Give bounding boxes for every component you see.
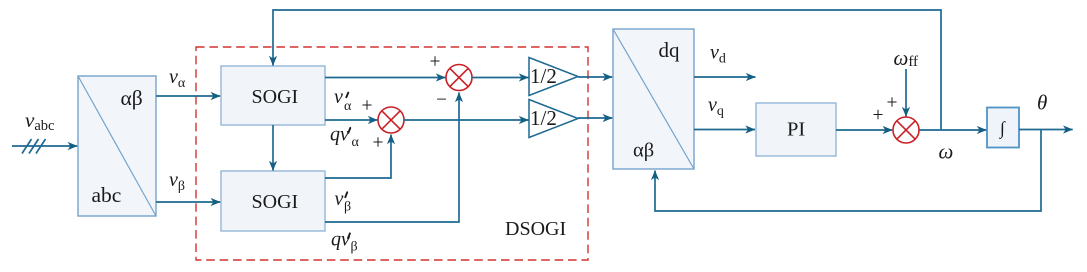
svg-text:vd: vd bbox=[710, 41, 726, 66]
svg-text:−: − bbox=[436, 90, 447, 111]
svg-text:α: α bbox=[352, 135, 360, 150]
svg-text:+: + bbox=[362, 96, 373, 117]
block SOGI 1 bbox=[221, 66, 325, 125]
multiplier lower (qv'_alpha + v'_beta) bbox=[378, 107, 404, 133]
wire: gain upper to dq block bbox=[578, 76, 612, 78]
gain block 1/2 upper bbox=[529, 58, 578, 96]
wire: gain lower to dq block bbox=[578, 117, 612, 119]
svg-text:vabc: vabc bbox=[25, 108, 54, 134]
wire: omega_ff into summing junction bbox=[905, 69, 907, 117]
wire: upper multiplier to gain 1/2 bbox=[472, 77, 529, 79]
svg-text:ω: ω bbox=[939, 140, 954, 164]
svg-text:qv: qv bbox=[331, 229, 350, 251]
svg-text:β: β bbox=[351, 240, 358, 255]
svg-text:SOGI: SOGI bbox=[252, 191, 299, 213]
label qv'_beta bbox=[331, 229, 358, 255]
svg-text:α: α bbox=[344, 99, 352, 114]
wire: v_d output bbox=[694, 76, 756, 78]
block PI bbox=[756, 103, 836, 156]
wire: v'_alpha to upper multiplier bbox=[325, 77, 446, 79]
wire: omega feedback to SOGI1 (top) bbox=[273, 10, 941, 130]
wire: v'_beta to lower multiplier bbox=[325, 135, 391, 179]
DSOGI dashed enclosure bbox=[196, 47, 588, 260]
svg-text:θ: θ bbox=[1037, 91, 1047, 115]
wire: theta output bbox=[1019, 129, 1073, 131]
gain block 1/2 lower bbox=[529, 100, 578, 138]
svg-text:1/2: 1/2 bbox=[530, 106, 557, 130]
wire: v_abc input bbox=[12, 145, 77, 147]
integrator block bbox=[987, 108, 1019, 148]
svg-text:+: + bbox=[373, 133, 384, 154]
wire: v_alpha bbox=[156, 95, 220, 97]
svg-text:SOGI: SOGI bbox=[252, 86, 299, 108]
svg-text:dq: dq bbox=[659, 38, 681, 62]
svg-text:+: + bbox=[430, 52, 441, 73]
wire: qv'_beta to upper multiplier bbox=[325, 93, 459, 223]
wire: lower multiplier to gain 1/2 bbox=[404, 119, 529, 121]
svg-text:+: + bbox=[887, 93, 898, 114]
transform block abc to alpha-beta bbox=[78, 76, 156, 216]
svg-text:vβ: vβ bbox=[169, 169, 185, 194]
svg-text:v: v bbox=[334, 86, 343, 108]
svg-text:PI: PI bbox=[787, 118, 805, 140]
svg-text:β: β bbox=[344, 200, 351, 215]
svg-text:1/2: 1/2 bbox=[530, 64, 557, 88]
wire: summing junction to integrator bbox=[919, 129, 987, 131]
svg-text:+: + bbox=[873, 105, 884, 126]
svg-text:abc: abc bbox=[92, 183, 122, 207]
svg-text:ωff: ωff bbox=[894, 46, 919, 70]
block SOGI 2 bbox=[221, 171, 325, 231]
label v'_beta bbox=[335, 188, 352, 215]
wire: PI to summing junction bbox=[836, 129, 892, 131]
summing junction bbox=[893, 117, 919, 143]
multiplier upper (v'_alpha - qv'_beta) bbox=[446, 65, 472, 91]
svg-text:v: v bbox=[335, 188, 344, 210]
svg-text:αβ: αβ bbox=[121, 86, 143, 110]
svg-text:αβ: αβ bbox=[633, 139, 654, 161]
transform block alpha-beta to dq bbox=[613, 29, 694, 169]
wire: theta feedback to dq block bbox=[655, 130, 1041, 212]
wire: SOGI1 to SOGI2 bbox=[272, 125, 274, 171]
label qv'_alpha bbox=[330, 124, 360, 151]
label v'_alpha bbox=[334, 86, 352, 114]
three-phase slash marks bbox=[22, 139, 46, 154]
svg-text:vα: vα bbox=[169, 66, 186, 91]
svg-text:DSOGI: DSOGI bbox=[505, 218, 566, 240]
wire: v_q to PI bbox=[694, 129, 755, 131]
svg-text:vq: vq bbox=[708, 94, 724, 119]
svg-text:qv: qv bbox=[330, 124, 349, 146]
wire: v_beta bbox=[156, 201, 220, 203]
wire: qv'_alpha to lower multiplier bbox=[325, 119, 378, 121]
